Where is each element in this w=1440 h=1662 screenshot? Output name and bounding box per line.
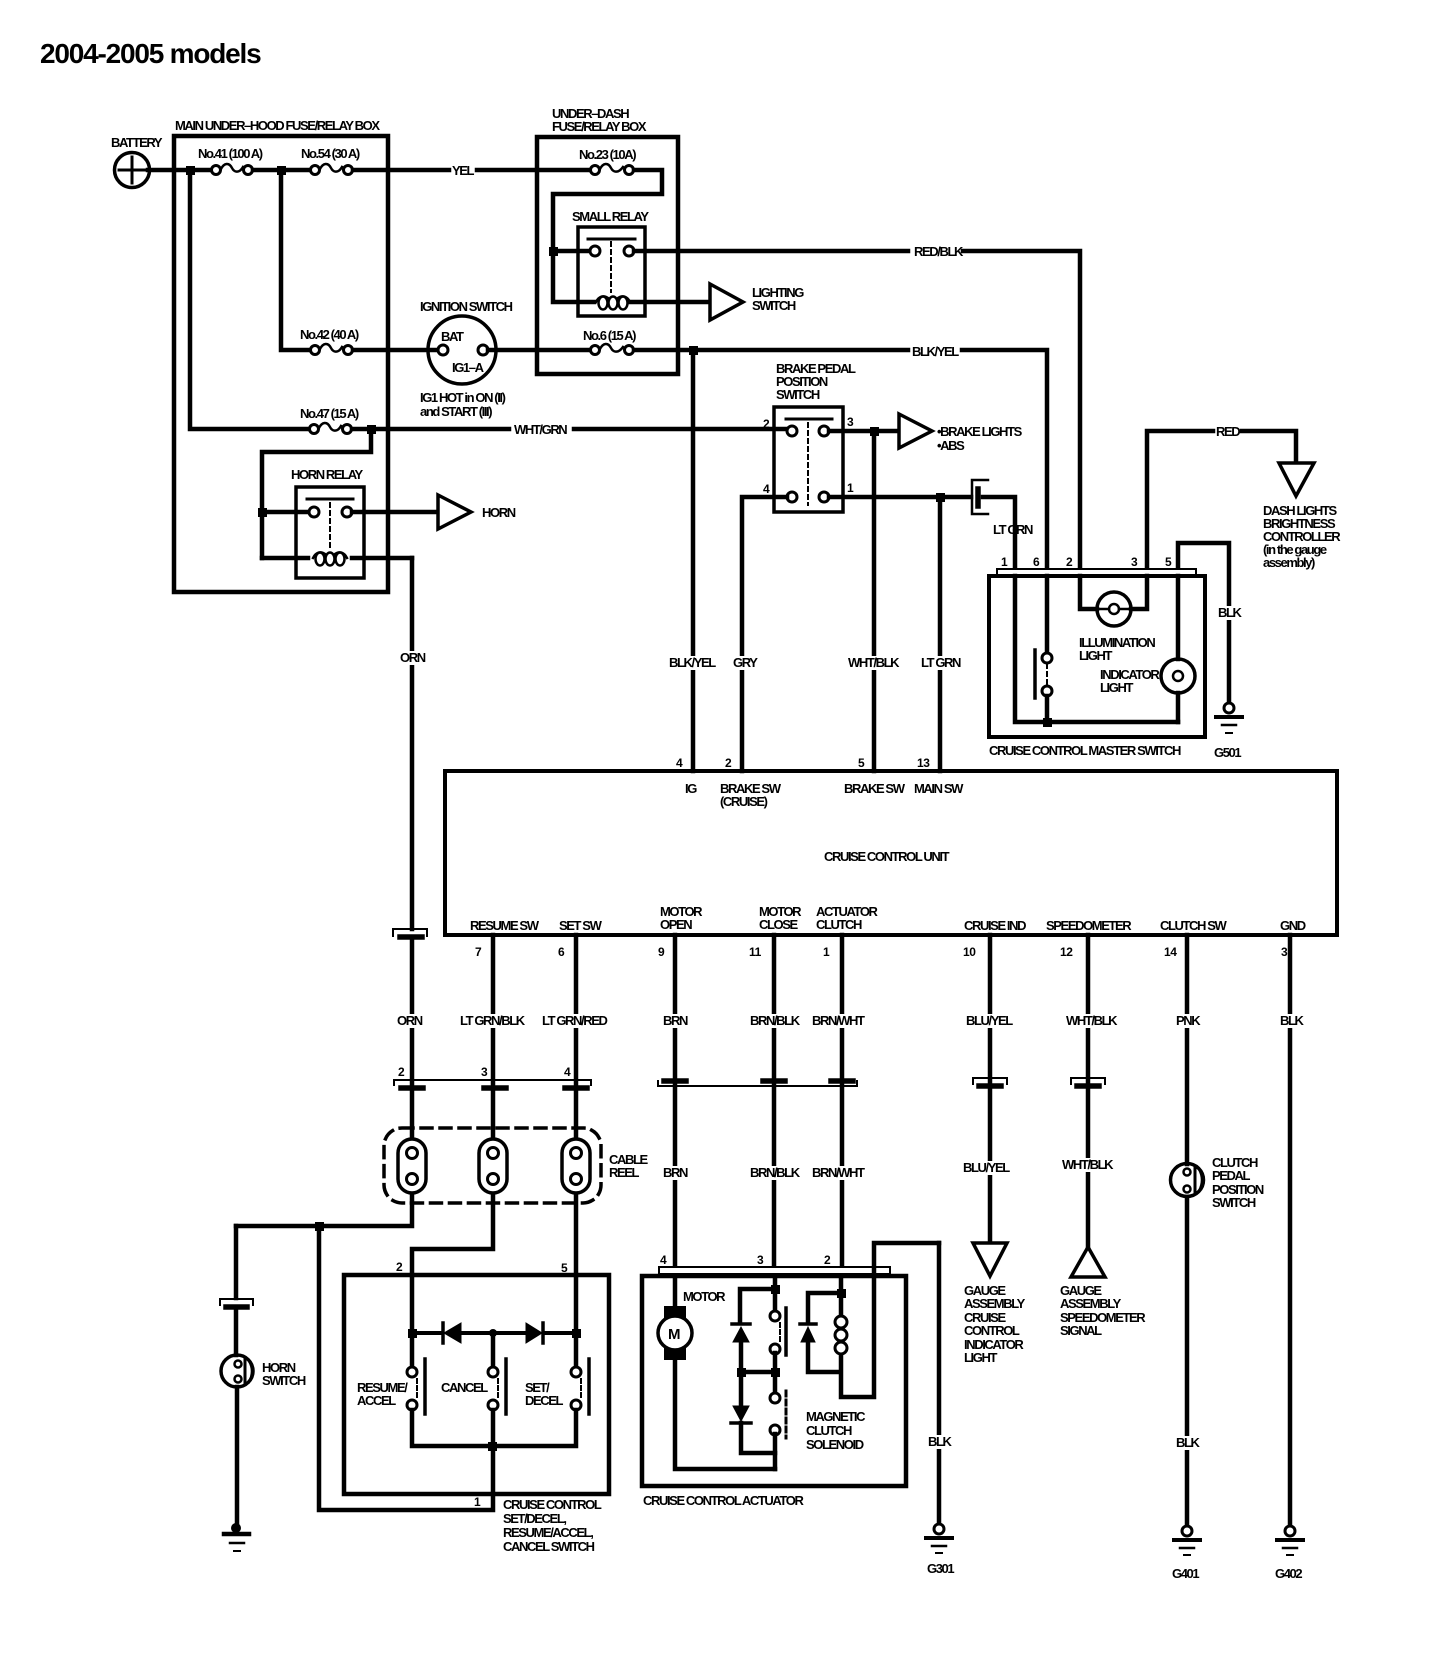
wire ORN connector to cable reel: [236, 940, 426, 1226]
svg-text:1: 1: [847, 481, 854, 495]
svg-text:LIGHT: LIGHT: [964, 1350, 997, 1365]
svg-text:3: 3: [1281, 945, 1288, 959]
svg-text:CRUISE CONTROL ACTUATOR: CRUISE CONTROL ACTUATOR: [643, 1493, 804, 1508]
svg-text:HORN RELAY: HORN RELAY: [291, 467, 363, 482]
svg-text:G301: G301: [927, 1561, 954, 1576]
svg-text:BRN/BLK: BRN/BLK: [750, 1013, 801, 1028]
svg-text:5: 5: [561, 1261, 568, 1275]
svg-text:MAIN UNDER–HOOD FUSE/RELAY BOX: MAIN UNDER–HOOD FUSE/RELAY BOX: [175, 118, 380, 133]
svg-text:SET/DECEL,: SET/DECEL,: [503, 1511, 566, 1526]
ground G402: [1275, 1526, 1303, 1581]
wire BLU/YEL cruise ind: [960, 935, 1013, 1243]
svg-text:14: 14: [1164, 945, 1177, 959]
node brake lights junction: [870, 427, 879, 436]
svg-text:2: 2: [396, 1260, 403, 1274]
node battery bus junction: [186, 166, 195, 175]
connector LT GRN inline: [972, 480, 1033, 537]
cruise control set/decel resume/accel cancel switch box: [344, 1260, 609, 1554]
horn switch: [221, 1355, 306, 1388]
svg-text:No.6 (15 A): No.6 (15 A): [583, 328, 636, 343]
svg-text:BAT: BAT: [441, 329, 464, 344]
actuator switch 1: [770, 1308, 786, 1372]
brake pedal position switch: [763, 361, 856, 512]
wire fuse23 to small relay: [553, 170, 662, 302]
svg-text:12: 12: [1060, 945, 1073, 959]
wire pin5 internal: [574, 1275, 579, 1367]
fuse No.47 (15 A): [300, 406, 359, 434]
svg-text:6: 6: [558, 945, 565, 959]
svg-text:2: 2: [763, 417, 770, 431]
set/decel switch: [525, 1359, 589, 1414]
svg-text:SWITCH: SWITCH: [776, 387, 820, 402]
actuator connector bar: [659, 1253, 890, 1274]
svg-text:LT GRN/RED: LT GRN/RED: [542, 1013, 607, 1028]
wire brake switch pin3 to brake lights arrow: [829, 429, 898, 434]
fuse No.54 (30 A): [301, 146, 360, 175]
wire RED/BLK from small relay to master switch: [634, 244, 1080, 569]
horn arrow: [438, 495, 516, 529]
svg-text:ASSEMBLY: ASSEMBLY: [964, 1296, 1026, 1311]
svg-text:G402: G402: [1275, 1566, 1302, 1581]
svg-text:SMALL RELAY: SMALL RELAY: [572, 209, 649, 224]
svg-text:9: 9: [658, 945, 665, 959]
node IG branch junction: [689, 346, 698, 355]
wire battery to fuse box: [148, 168, 211, 173]
svg-text:SWITCH: SWITCH: [262, 1373, 306, 1388]
svg-text:PNK: PNK: [1176, 1013, 1201, 1028]
under-dash fuse/relay box: [537, 106, 678, 374]
wire junction vertical to fuse42: [281, 170, 310, 350]
wire GRY brake switch pin4 down to unit: [730, 497, 787, 771]
cable reel: [384, 1128, 649, 1203]
svg-text:2004-2005 models: 2004-2005 models: [40, 38, 261, 69]
connector row 2 3 4: [394, 1065, 591, 1088]
svg-text:CANCEL: CANCEL: [441, 1380, 488, 1395]
wire fuse41 to fuse54: [253, 168, 310, 173]
wire pin2 internal: [410, 1275, 415, 1367]
node small relay feed junction: [549, 247, 558, 256]
svg-text:2: 2: [1066, 555, 1073, 569]
svg-text:DECEL: DECEL: [525, 1393, 564, 1408]
diode D2 (cancel right): [493, 1323, 576, 1343]
node MAIN SW junction: [936, 493, 945, 502]
motor: [658, 1276, 775, 1469]
svg-text:CLUTCH SW: CLUTCH SW: [1160, 918, 1228, 933]
node actuator junctions: [737, 1285, 846, 1377]
magnetic clutch solenoid branch: [806, 1243, 939, 1452]
title: [40, 38, 261, 69]
cable reel connector 1: [398, 1139, 426, 1193]
svg-text:ORN: ORN: [400, 650, 426, 665]
svg-text:RESUME SW: RESUME SW: [470, 918, 540, 933]
svg-text:4: 4: [763, 482, 770, 496]
wire BRN/WHT actuator clutch: [809, 935, 867, 1267]
wire WHT/GRN fuse47 to brake pedal switch: [352, 422, 787, 437]
svg-text:BRN/WHT: BRN/WHT: [812, 1165, 865, 1180]
svg-text:MAIN SW: MAIN SW: [914, 781, 964, 796]
svg-text:CLOSE: CLOSE: [759, 917, 799, 932]
wire LT GRN down to cruise control unit MAIN SW: [918, 497, 961, 771]
svg-text:SET SW: SET SW: [559, 918, 603, 933]
wire master switch pin5 to G501: [1178, 543, 1243, 703]
svg-text:No.23 (10A): No.23 (10A): [579, 147, 636, 162]
master main switch contacts: [1035, 576, 1052, 722]
wire junction down to horn relay: [262, 429, 371, 558]
connector horn switch inline: [220, 1299, 253, 1307]
wire fuse42 to ignition switch: [353, 348, 437, 353]
svg-text:LIGHT: LIGHT: [1100, 680, 1133, 695]
svg-text:PEDAL: PEDAL: [1212, 1168, 1251, 1183]
ground G501: [1214, 703, 1242, 760]
wire BLK to G301: [925, 1243, 953, 1524]
connector ORN inline: [393, 929, 427, 937]
node master bottom junction: [1043, 718, 1052, 727]
small relay: [572, 209, 649, 316]
node diode row junctions: [408, 1329, 581, 1338]
svg-text:BRN/BLK: BRN/BLK: [750, 1165, 801, 1180]
node common junction: [488, 1442, 497, 1451]
svg-text:LT GRN: LT GRN: [921, 655, 961, 670]
cruise control unit: [445, 756, 1337, 959]
wire mid row: [741, 1372, 775, 1406]
wire RED from master switch pin3 to dash lights controller: [1147, 424, 1296, 569]
svg-text:1: 1: [1001, 555, 1008, 569]
svg-text:4: 4: [564, 1065, 571, 1079]
svg-text:MAGNETIC: MAGNETIC: [806, 1409, 866, 1424]
fuse No.23 (10A): [579, 147, 636, 175]
wire horn switch branch: [236, 1226, 237, 1526]
gauge assembly cruise indicator arrow: [964, 1243, 1026, 1365]
wire BLK/YEL down to cruise control unit IG: [666, 350, 716, 771]
svg-text:3: 3: [757, 1253, 764, 1267]
wire switch common to pin1: [319, 1226, 493, 1510]
wire battery vertical to fuse47: [190, 170, 309, 429]
svg-text:IGNITION SWITCH: IGNITION SWITCH: [420, 299, 513, 314]
connector actuator group: [658, 1081, 857, 1086]
cruise control actuator box: [642, 1276, 906, 1508]
svg-text:M: M: [668, 1326, 681, 1343]
horn relay coil: [262, 552, 412, 565]
svg-text:10: 10: [963, 945, 976, 959]
svg-text:HORN: HORN: [482, 505, 516, 520]
svg-text:CRUISE CONTROL: CRUISE CONTROL: [503, 1497, 602, 1512]
svg-text:BRN: BRN: [663, 1013, 688, 1028]
svg-text:CLUTCH: CLUTCH: [816, 917, 862, 932]
svg-text:G401: G401: [1172, 1566, 1199, 1581]
fuse No.41 (100 A): [198, 146, 263, 175]
svg-text:FUSE/RELAY BOX: FUSE/RELAY BOX: [552, 119, 647, 134]
ground G301: [926, 1524, 954, 1576]
svg-text:LT GRN/BLK: LT GRN/BLK: [460, 1013, 526, 1028]
svg-text:3: 3: [847, 415, 854, 429]
svg-text:WHT/BLK: WHT/BLK: [848, 655, 900, 670]
svg-text:5: 5: [1165, 555, 1172, 569]
wire BLK/YEL fuse6 to master switch: [634, 344, 1047, 569]
svg-text:SWITCH: SWITCH: [752, 298, 796, 313]
svg-text:SPEEDOMETER: SPEEDOMETER: [1046, 918, 1132, 933]
svg-text:BRAKE SW: BRAKE SW: [844, 781, 906, 796]
cable reel connector 2: [479, 1139, 507, 1193]
fuse No.42 (40 A): [300, 327, 359, 355]
svg-text:1: 1: [823, 945, 830, 959]
svg-text:3: 3: [1131, 555, 1138, 569]
svg-text:RESUME/ACCEL,: RESUME/ACCEL,: [503, 1525, 593, 1540]
svg-text:G501: G501: [1214, 745, 1241, 760]
svg-text:GND: GND: [1280, 918, 1306, 933]
cruise control master switch connector bar: [997, 569, 1196, 576]
diode D1 (cancel left): [412, 1323, 493, 1343]
svg-text:BLK: BLK: [1176, 1435, 1201, 1450]
wire BRN/BLK motor close: [747, 935, 801, 1267]
gauge assembly speedometer arrow: [1060, 1247, 1146, 1338]
svg-text:assembly): assembly): [1263, 555, 1315, 570]
wire YEL to under-dash box: [353, 163, 590, 178]
svg-text:No.47 (15 A): No.47 (15 A): [300, 406, 359, 421]
svg-text:BLK/YEL: BLK/YEL: [912, 344, 959, 359]
svg-text:LT GRN: LT GRN: [993, 522, 1033, 537]
ground horn switch: [224, 1523, 249, 1551]
main under-hood fuse/relay box: [174, 118, 388, 592]
node WHT/GRN junction: [367, 425, 376, 434]
svg-text:YEL: YEL: [452, 163, 475, 178]
connector BLU/YEL inline: [973, 1078, 1007, 1086]
wire ORN down from horn relay coil: [396, 558, 428, 929]
svg-text:ORN: ORN: [397, 1013, 423, 1028]
wire PNK clutch switch: [1173, 935, 1201, 1526]
svg-text:WHT/BLK: WHT/BLK: [1062, 1157, 1114, 1172]
svg-text:RED: RED: [1216, 424, 1240, 439]
cancel switch: [441, 1359, 506, 1414]
svg-text:CRUISE CONTROL UNIT: CRUISE CONTROL UNIT: [824, 849, 950, 864]
svg-text:No.42 (40 A): No.42 (40 A): [300, 327, 359, 342]
illumination light: [1079, 576, 1155, 663]
svg-text:BLK: BLK: [1218, 605, 1243, 620]
svg-text:CONTROL: CONTROL: [964, 1323, 1020, 1338]
diode D3 (up): [732, 1324, 750, 1372]
wire WHT/BLK speedometer: [1059, 935, 1118, 1247]
wire master pin1 internal: [1015, 576, 1178, 722]
svg-text:CLUTCH: CLUTCH: [806, 1423, 852, 1438]
svg-text:BLK: BLK: [928, 1434, 953, 1449]
wire SET SW LT GRN/RED: [539, 935, 607, 1275]
svg-text:RED/BLK: RED/BLK: [914, 244, 964, 259]
clutch pedal position switch: [1171, 1155, 1264, 1210]
svg-text:ACCEL: ACCEL: [357, 1393, 396, 1408]
svg-text:BLU/YEL: BLU/YEL: [963, 1160, 1010, 1175]
svg-text:WHT/BLK: WHT/BLK: [1066, 1013, 1118, 1028]
svg-text:11: 11: [749, 945, 762, 959]
wire horn relay to horn arrow: [352, 510, 437, 515]
svg-text:SIGNAL: SIGNAL: [1060, 1323, 1102, 1338]
diode D5 (solenoid): [800, 1324, 816, 1342]
svg-text:LIGHT: LIGHT: [1079, 648, 1112, 663]
svg-text:IG: IG: [685, 781, 697, 796]
wire RESUME SW LT GRN/BLK: [412, 935, 526, 1275]
wire brake switch pin1 to LT GRN connector: [829, 497, 1015, 569]
svg-text:SWITCH: SWITCH: [1212, 1195, 1256, 1210]
svg-text:7: 7: [475, 945, 482, 959]
wire BRN motor open: [660, 935, 688, 1267]
svg-text:5: 5: [858, 756, 865, 770]
svg-text:3: 3: [481, 1065, 488, 1079]
svg-text:SOLENOID: SOLENOID: [806, 1437, 864, 1452]
svg-text:BLK/YEL: BLK/YEL: [669, 655, 716, 670]
svg-text:MOTOR: MOTOR: [683, 1289, 726, 1304]
svg-text:No.54 (30 A): No.54 (30 A): [301, 146, 360, 161]
diode D4 (down): [731, 1406, 775, 1453]
svg-text:•BRAKE LIGHTS: •BRAKE LIGHTS: [937, 424, 1023, 439]
indicator light: [1100, 576, 1195, 722]
dash lights brightness controller arrow: [1263, 463, 1341, 570]
wire ignition to fuse No.6: [488, 348, 590, 353]
svg-text:1: 1: [474, 1495, 481, 1509]
svg-text:CRUISE IND: CRUISE IND: [964, 918, 1026, 933]
svg-text:BLK: BLK: [1280, 1013, 1305, 1028]
svg-text:2: 2: [725, 756, 732, 770]
connector WHT/BLK inline: [1071, 1078, 1105, 1086]
svg-text:IG1 HOT in ON (II): IG1 HOT in ON (II): [420, 390, 506, 405]
svg-text:BRN: BRN: [663, 1165, 688, 1180]
node horn relay feed junction: [258, 508, 267, 517]
svg-text:(CRUISE): (CRUISE): [720, 794, 768, 809]
svg-text:2: 2: [398, 1065, 405, 1079]
svg-text:ASSEMBLY: ASSEMBLY: [1060, 1296, 1122, 1311]
horn relay: [291, 467, 364, 578]
svg-text:BLU/YEL: BLU/YEL: [966, 1013, 1013, 1028]
svg-text:and START (III): and START (III): [420, 404, 492, 419]
svg-text:BATTERY: BATTERY: [111, 135, 163, 150]
svg-text:No.41 (100 A): No.41 (100 A): [198, 146, 263, 161]
svg-text:BRN/WHT: BRN/WHT: [812, 1013, 865, 1028]
svg-text:4: 4: [660, 1253, 667, 1267]
svg-text:•ABS: •ABS: [937, 438, 965, 453]
lighting switch arrow: [710, 284, 804, 320]
svg-text:OPEN: OPEN: [660, 917, 692, 932]
svg-text:2: 2: [824, 1253, 831, 1267]
svg-text:6: 6: [1033, 555, 1040, 569]
battery: [111, 135, 163, 188]
brake lights arrow: [899, 414, 1023, 453]
cable reel connector 3: [562, 1139, 590, 1193]
wire motor open branch: [740, 1276, 775, 1323]
svg-text:4: 4: [676, 756, 683, 770]
wire switch bottoms to common: [412, 1410, 576, 1446]
svg-text:WHT/GRN: WHT/GRN: [514, 422, 567, 437]
actuator switch 2: [770, 1391, 786, 1469]
svg-text:CRUISE CONTROL MASTER SWITCH: CRUISE CONTROL MASTER SWITCH: [989, 743, 1181, 758]
fuse No.6 (15 A): [583, 328, 636, 355]
ground G401: [1172, 1526, 1200, 1581]
svg-text:13: 13: [917, 756, 930, 770]
node horn switch branch junction: [315, 1222, 324, 1231]
wire WHT/BLK down to cruise control unit BRAKE SW: [845, 431, 900, 771]
node junction to fuse42: [277, 166, 286, 175]
solenoid coil: [835, 1316, 847, 1354]
svg-text:REEL: REEL: [609, 1165, 640, 1180]
resume/accel switch: [357, 1333, 493, 1414]
ignition switch: [420, 299, 513, 419]
small relay coil: [596, 296, 709, 309]
wire BLK gnd: [1277, 935, 1305, 1526]
svg-text:CANCEL SWITCH: CANCEL SWITCH: [503, 1539, 595, 1554]
svg-text:IG1–A: IG1–A: [452, 360, 485, 375]
svg-text:GRY: GRY: [733, 655, 758, 670]
cruise control master switch: [989, 555, 1205, 758]
